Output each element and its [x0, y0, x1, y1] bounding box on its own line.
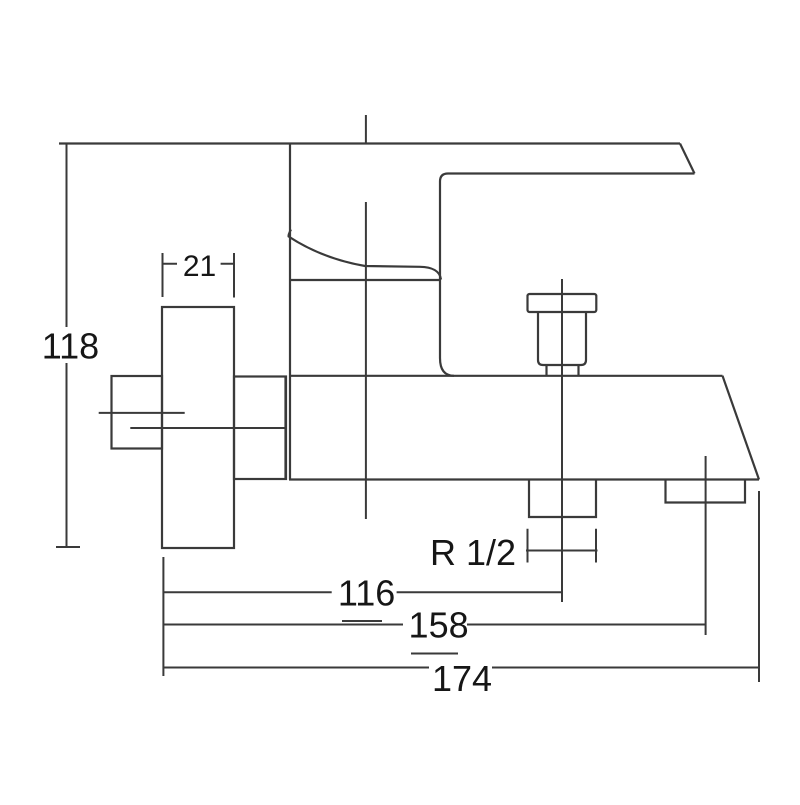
shower outlet boss [529, 480, 596, 518]
handle bottom edge with corner into body [440, 174, 695, 376]
svg-text:116: 116 [338, 572, 395, 613]
dim left extension line [162, 557, 164, 676]
dim 174 line right segment [492, 667, 759, 669]
inlet pipe [112, 376, 163, 449]
diverter knob base nib right [577, 365, 579, 376]
handle skirt curve [289, 237, 441, 280]
body left inner edge [284, 377, 286, 480]
dim 174 extension line [758, 491, 760, 682]
handle top edge [59, 142, 680, 144]
spout shoulder line [290, 279, 441, 281]
stray dash B [411, 653, 458, 655]
main vertical centerline [365, 202, 367, 519]
svg-text:158: 158 [409, 605, 469, 646]
dim R1/2 left tick [527, 529, 529, 563]
inlet centerline upper [99, 412, 185, 414]
dim 158 extension line [705, 456, 707, 635]
dim 21 left tick [162, 253, 164, 297]
diverter centerline [561, 279, 563, 602]
dim 116 line right segment [397, 591, 562, 593]
dim 21 line right segment [221, 263, 234, 265]
body bottom edge [289, 478, 759, 480]
svg-text:21: 21 [183, 250, 216, 283]
wall flange disc [162, 307, 234, 548]
dim 118 bottom tick [56, 546, 80, 548]
diverter knob flange [528, 294, 597, 312]
neck chamfer [289, 230, 292, 238]
dim 158 line right segment [467, 624, 706, 626]
stray dash A [342, 620, 382, 622]
diverter knob stem [538, 312, 586, 365]
svg-text:R 1/2: R 1/2 [430, 532, 516, 573]
dim 21 right tick [233, 253, 235, 298]
dim 118 line upper segment [66, 144, 68, 328]
diverter knob base nib left [545, 365, 547, 376]
dim 118 line lower segment [66, 363, 68, 547]
svg-text:174: 174 [432, 658, 492, 699]
inlet centerline lower [130, 427, 285, 429]
dim 116 line left segment [163, 591, 331, 593]
dim R1/2 right tick [595, 529, 597, 563]
dim 158 line left segment [163, 624, 403, 626]
mounting foot boss [666, 480, 746, 503]
svg-text:118: 118 [42, 326, 99, 367]
dim 174 line left segment [163, 667, 429, 669]
dim 21 line left segment [163, 263, 178, 265]
handle end slant [680, 144, 695, 174]
body top edge [290, 375, 723, 377]
connector block [234, 377, 286, 480]
main vertical centerline stub [365, 115, 367, 144]
spout right slant [723, 376, 760, 480]
valve neck left edge [289, 144, 291, 480]
dim R1/2 line [526, 550, 598, 552]
